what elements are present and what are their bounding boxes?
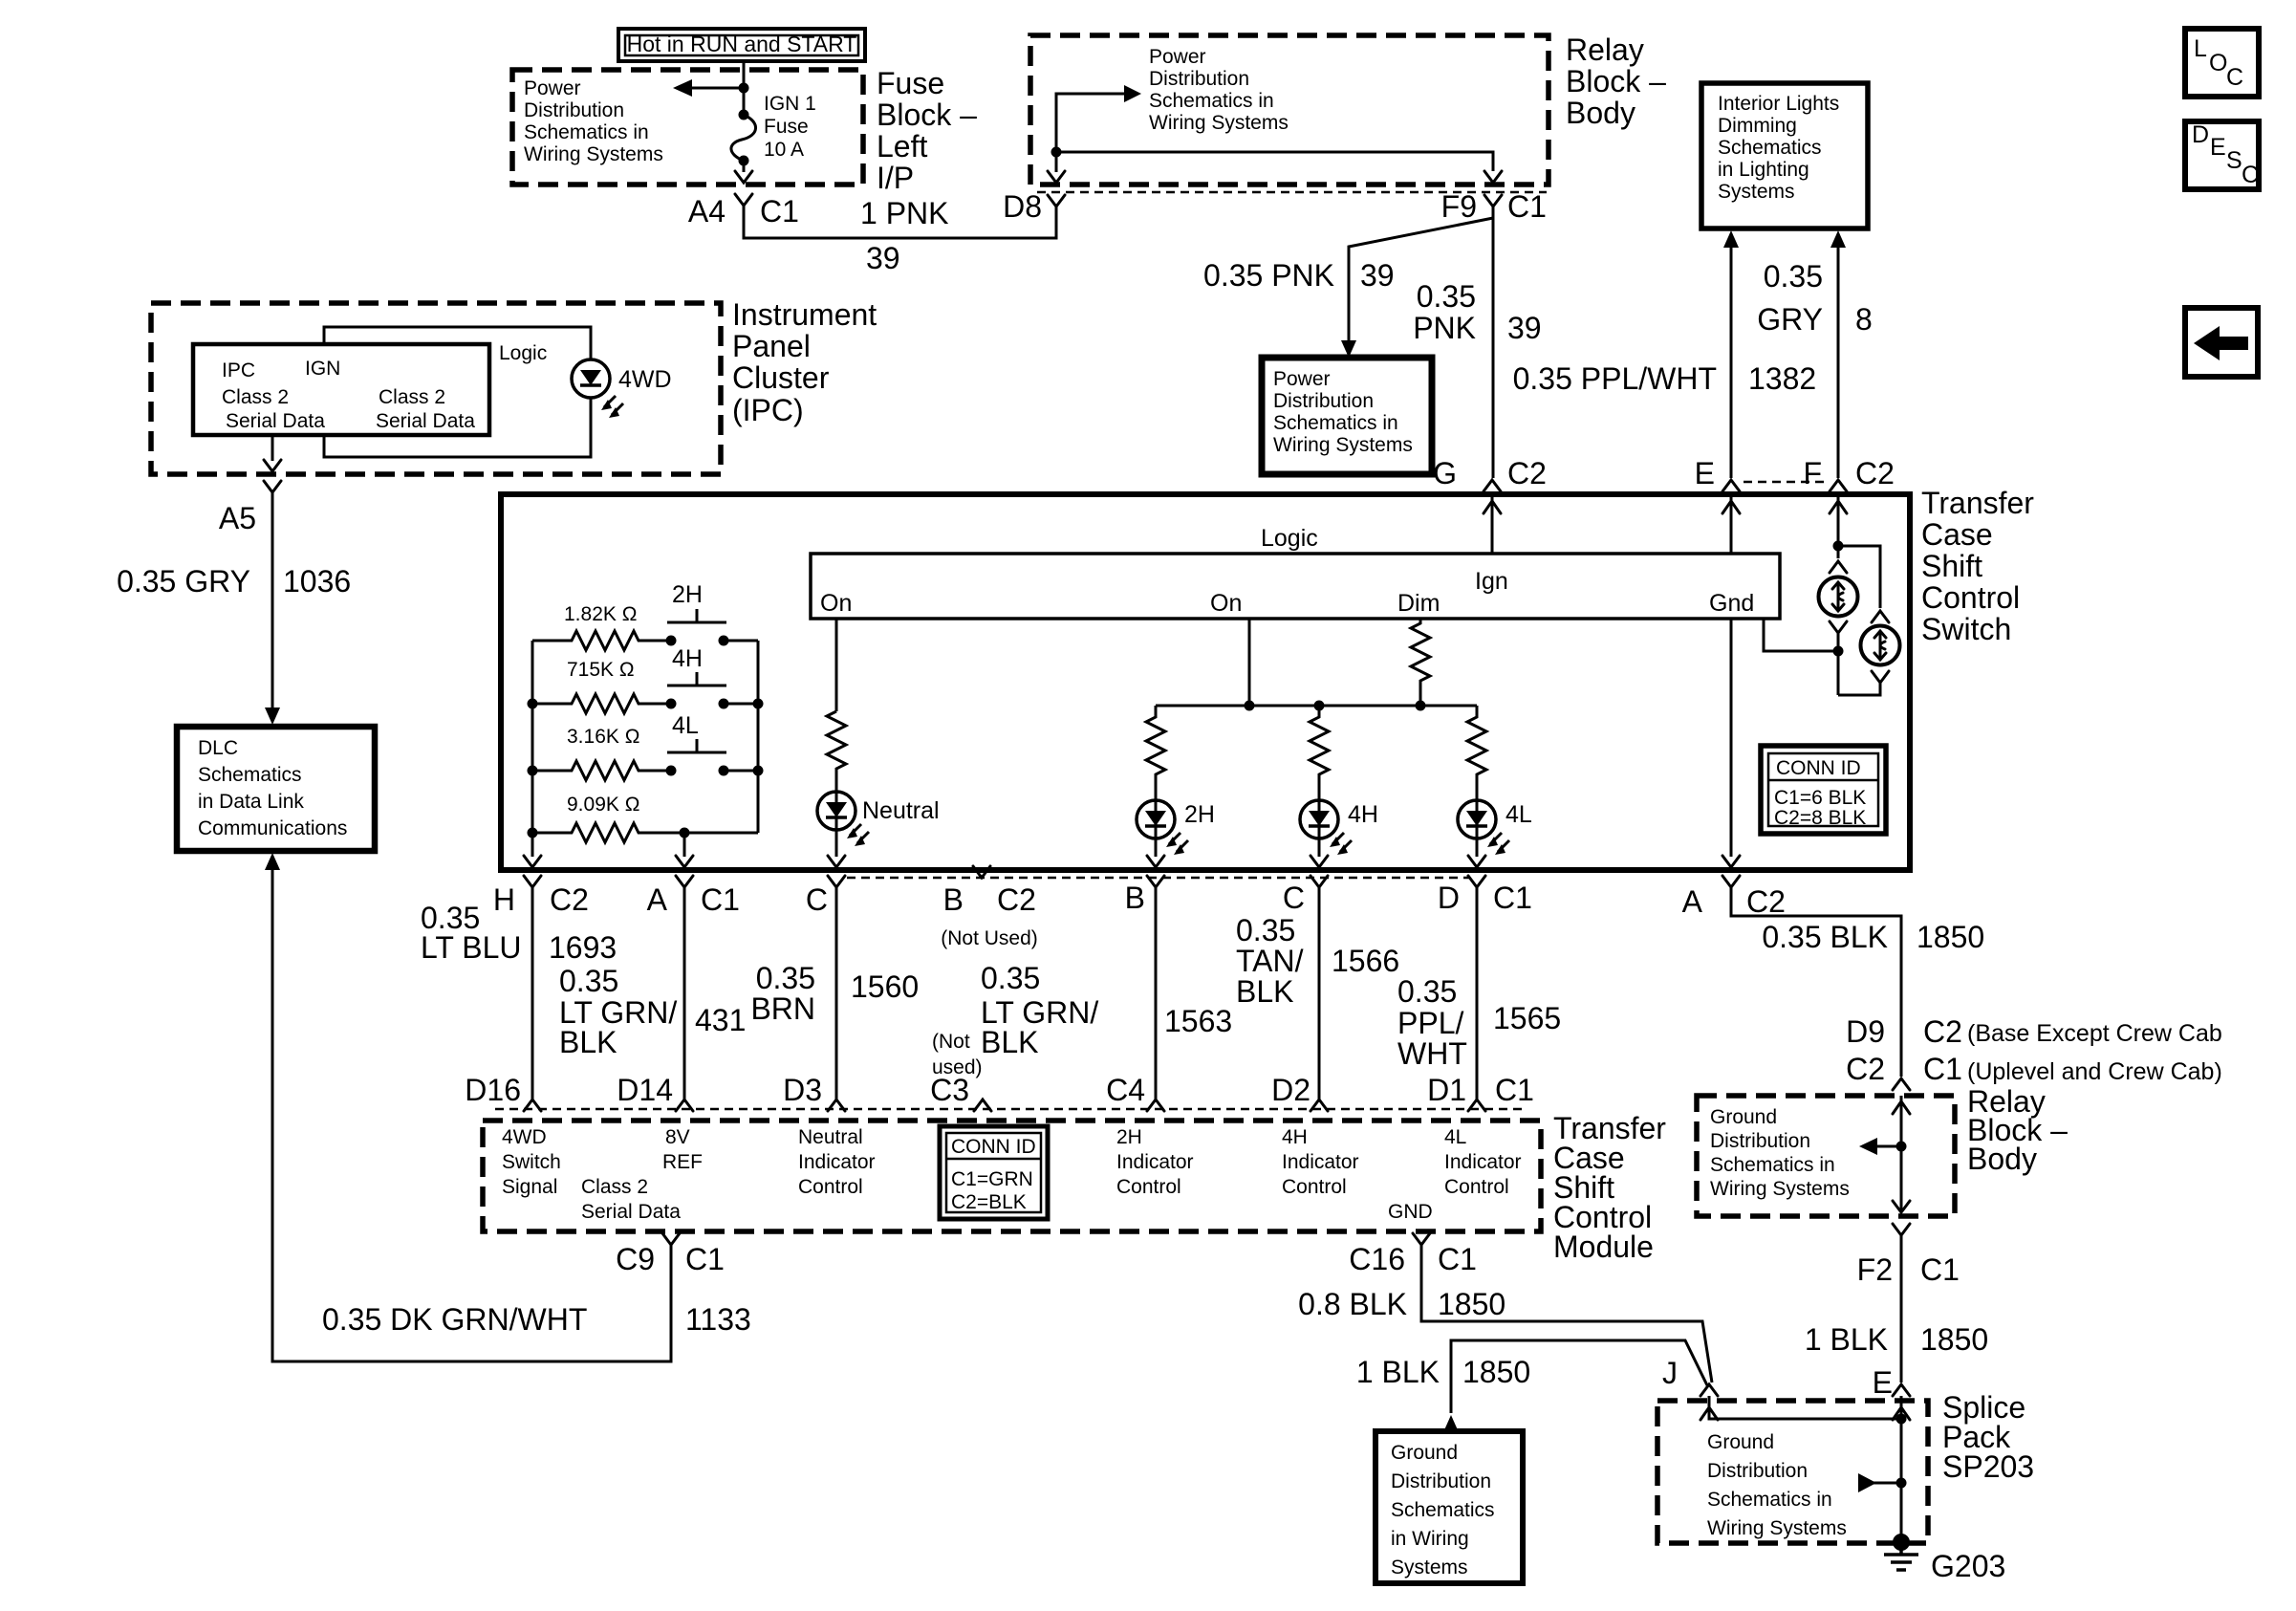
svg-text:Class 2: Class 2 [379,386,445,408]
connector below lamp 2 [1872,671,1889,683]
svg-text:Power: Power [1149,46,1206,68]
svg-text:Ground: Ground [1710,1106,1777,1128]
lamp 2 (dimming) [1861,626,1900,665]
wire ladder output down [683,833,686,857]
wire G entry with up arrow [1484,494,1501,554]
svg-text:D: D [2192,121,2209,148]
arrow exit H [524,856,541,867]
svg-text:IGN: IGN [305,358,340,380]
wire On1 down [835,619,838,711]
label Instrument Panel Cluster (IPC) [732,297,877,427]
svg-text:Dimming: Dimming [1718,115,1797,137]
wire E entry with up arrow [1722,494,1740,554]
svg-text:G203: G203 [1931,1549,2005,1583]
connector C16 C1 (module bottom GND) [1349,1233,1477,1276]
bus box Logic/Ign [811,554,1780,619]
arrow exit A [676,856,693,867]
note text Power Distribution (relay block) [1149,46,1289,134]
svg-text:DLC: DLC [198,737,238,759]
wire 0.35 BLK 1850 from A C2 [1731,887,1901,1077]
resistor 2H branch [1146,706,1165,800]
svg-text:1850: 1850 [1920,1322,1988,1357]
svg-text:1693: 1693 [549,930,617,965]
svg-text:0.35: 0.35 [1764,259,1823,294]
wire On2 down [1248,619,1251,706]
relay block body dashed box (ground distribution) [1697,1096,1955,1216]
svg-text:IGN 1: IGN 1 [764,93,816,115]
svg-text:C9: C9 [616,1242,655,1276]
svg-text:C: C [1283,881,1305,915]
label 4WD Switch Signal [502,1126,561,1198]
svg-text:715K Ω: 715K Ω [567,659,635,681]
svg-text:C1: C1 [1438,1242,1477,1276]
wire contact to right rail [724,770,758,773]
svg-text:SP203: SP203 [1942,1449,2034,1484]
svg-text:in Data Link: in Data Link [198,791,304,813]
svg-text:1560: 1560 [851,969,919,1004]
svg-text:F9: F9 [1441,189,1477,224]
label Class 2 Serial Data (module) [581,1176,681,1223]
svg-text:Ign: Ign [1475,568,1508,595]
switch contact 4L [666,712,729,776]
svg-text:0.35 DK GRN/WHT: 0.35 DK GRN/WHT [322,1302,587,1337]
note text Power Distribution (fuse block) [524,77,663,165]
connector below lamp 1 [1830,621,1847,633]
svg-text:A: A [647,882,668,917]
label IGN 1 Fuse 10 A [764,93,816,161]
svg-text:1 BLK: 1 BLK [1356,1355,1440,1389]
connector D9 C2 / C2 C1 [1846,1014,2222,1090]
fuse IGN 1 10A [731,110,756,166]
svg-text:0.35: 0.35 [1397,974,1457,1009]
svg-text:S: S [2226,147,2242,174]
svg-text:Relay: Relay [1566,33,1644,67]
svg-text:PPL/: PPL/ [1397,1006,1463,1040]
svg-text:C2=8 BLK: C2=8 BLK [1774,807,1866,829]
node junction in relay block [1896,1142,1907,1152]
svg-text:C1: C1 [1507,189,1547,224]
svg-text:C3: C3 [930,1073,969,1107]
left rail [531,641,534,857]
svg-text:Switch: Switch [502,1151,561,1173]
label Class 2 Serial Data (right) [376,386,475,432]
connector C (4H) [1283,876,1328,915]
svg-text:D2: D2 [1271,1073,1310,1107]
relay block dashed box [1030,35,1549,185]
node left rail row2 [528,699,538,709]
svg-text:C1: C1 [1923,1052,1962,1086]
svg-text:4WD: 4WD [502,1126,547,1148]
svg-text:Signal: Signal [502,1176,557,1198]
arrow exit B [1147,856,1164,867]
svg-text:C1: C1 [1920,1252,1960,1287]
svg-text:(Not Used): (Not Used) [941,927,1038,949]
wire 0.35 PNK 39 main from F9 to G [1492,207,1495,478]
label 4H Indicator Control [1282,1126,1359,1198]
svg-text:4WD: 4WD [618,366,672,393]
LED 4H [1300,800,1338,838]
wire 0.35 GRY 1036 [271,492,274,709]
connector C9 C1 (module bottom) [616,1233,725,1276]
ground G203 [1884,1534,1918,1570]
svg-text:8V: 8V [665,1126,690,1148]
module dashed box [483,1121,1541,1231]
svg-text:10 A: 10 A [764,139,804,161]
svg-text:Wiring Systems: Wiring Systems [1710,1178,1850,1200]
svg-text:C1: C1 [1493,881,1532,915]
svg-text:4H: 4H [672,645,703,672]
svg-text:C2=BLK: C2=BLK [951,1191,1027,1213]
svg-text:Wiring Systems: Wiring Systems [1707,1517,1847,1539]
svg-text:Power: Power [524,77,581,99]
svg-text:0.35: 0.35 [981,961,1040,995]
svg-text:Dim: Dim [1397,590,1440,617]
node left rail row3 [528,766,538,776]
svg-text:C2: C2 [1923,1014,1962,1049]
wire B to C4 [1155,887,1158,1099]
LED 4WD light arrows [601,396,623,418]
svg-text:C2: C2 [1507,456,1547,490]
svg-text:D16: D16 [465,1073,521,1107]
connector D2 [1271,1073,1328,1111]
LED Neutral [817,792,856,830]
svg-text:1850: 1850 [1438,1287,1505,1321]
connector D C1 [1438,876,1532,915]
wire E into splice pack with entry arrow [1893,1396,1910,1542]
wire from Hot box into fuse block [743,61,746,88]
svg-text:1565: 1565 [1493,1001,1561,1035]
svg-text:in Wiring: in Wiring [1391,1528,1469,1550]
svg-text:C1: C1 [760,194,799,229]
wire 0.35 PPL/WHT 1382 (E) [1730,246,1733,478]
svg-text:C4: C4 [1106,1073,1145,1107]
node lamp junction top [1833,541,1844,552]
label Transfer Case Shift Control Switch [1921,486,2034,646]
svg-text:On: On [1210,590,1242,617]
svg-text:Serial Data: Serial Data [226,410,325,432]
svg-text:Block –: Block – [877,98,977,132]
svg-text:O: O [2209,50,2227,76]
svg-text:C2: C2 [1746,884,1786,919]
svg-text:1133: 1133 [685,1302,751,1337]
svg-text:Schematics in: Schematics in [1710,1154,1835,1176]
resistor 4L branch [1467,706,1486,800]
svg-text:Ground: Ground [1707,1431,1774,1453]
svg-text:C1=6 BLK: C1=6 BLK [1774,787,1866,809]
svg-text:Control: Control [1921,580,2020,615]
wire Gnd to lamp loop [1764,619,1838,651]
label 0.35 LT BLU [421,901,522,965]
svg-text:Neutral: Neutral [798,1126,863,1148]
splice pack dashed box [1657,1401,1928,1543]
svg-text:A5: A5 [219,501,256,535]
resistor 4H branch [1310,706,1329,800]
svg-text:0.35 GRY: 0.35 GRY [117,564,250,599]
node On2 junction [1245,701,1255,711]
label Transfer Case Shift Control Module [1553,1111,1666,1264]
svg-text:IPC: IPC [222,359,255,381]
svg-text:C1: C1 [685,1242,725,1276]
svg-text:0.35: 0.35 [1236,913,1295,947]
wire indicator feed rail [1156,705,1477,708]
arrow exit D8 [1048,152,1065,183]
svg-text:in Lighting: in Lighting [1718,159,1809,181]
label Relay Block - Body (bottom) [1967,1084,2068,1176]
LED 2H [1137,800,1175,838]
svg-text:Cluster: Cluster [732,360,830,395]
wire [743,88,746,115]
wire LED 4L to exit D [1476,838,1479,857]
thin dashed connector line (module top) [495,1108,1527,1111]
label 0.35 PPL/ WHT [1397,974,1467,1071]
svg-text:Systems: Systems [1391,1557,1468,1578]
wire 1 BLK 1850 branch to ground distribution [1451,1340,1707,1413]
node ladder output [680,828,690,838]
label 0.35 PNK (vertical wire) [1413,279,1476,345]
svg-text:Power: Power [1273,368,1331,390]
svg-text:8: 8 [1855,302,1873,337]
label 0.35 LT GRN/ BLK (1563) [981,961,1098,1059]
svg-text:Transfer: Transfer [1921,486,2034,520]
svg-text:Logic: Logic [1261,525,1318,552]
svg-text:Schematics: Schematics [1391,1499,1495,1521]
arrow exit relay block [1893,1201,1910,1212]
svg-text:C1: C1 [701,882,740,917]
wire F entry with up arrow [1830,494,1847,544]
svg-text:2H: 2H [1184,801,1215,828]
wire fuse to A4 with exit arrow [735,161,752,183]
svg-text:Logic: Logic [499,342,547,364]
wire A5 exit from IPC [264,435,281,471]
switch box [501,494,1910,870]
arrow exit F9 [1484,171,1502,183]
DESC box [2185,121,2259,189]
connector D8 [1003,189,1065,224]
svg-text:Case: Case [1921,517,1993,552]
arrow into ground distribution box [1443,1415,1459,1432]
svg-text:D8: D8 [1003,189,1042,224]
svg-text:4H: 4H [1282,1126,1308,1148]
svg-text:Class 2: Class 2 [581,1176,648,1198]
label 0.35 LT GRN/ BLK (431) [559,964,677,1059]
svg-text:Schematics in: Schematics in [524,121,649,143]
connector A4 C1 [688,194,799,229]
connector F C2 (top) [1803,456,1894,491]
connector G C2 (top) [1433,456,1547,491]
wire LED 2H to exit B [1155,838,1158,857]
wire contact to right rail [724,640,758,642]
svg-text:C1=GRN: C1=GRN [951,1168,1033,1190]
svg-text:39: 39 [1360,258,1395,293]
LED 2H light arrows [1166,833,1188,855]
svg-text:Block –: Block – [1566,64,1666,98]
svg-text:Systems: Systems [1718,181,1795,203]
resistor 715K [532,694,671,713]
svg-text:C2: C2 [1846,1052,1885,1086]
svg-text:E: E [1695,456,1715,490]
svg-text:C: C [806,882,828,917]
svg-text:2H: 2H [1116,1126,1142,1148]
svg-text:2H: 2H [672,581,703,608]
svg-text:Distribution: Distribution [524,99,624,121]
connector C3 (not used) [930,1073,991,1111]
label box Hot in RUN and START [618,29,865,61]
svg-text:Left: Left [877,129,927,163]
arrow up into DLC box bottom [265,853,280,870]
connector E (splice) [1873,1365,1910,1400]
svg-text:Control: Control [798,1176,863,1198]
svg-text:G: G [1433,456,1457,490]
connector E (top) [1695,456,1740,491]
svg-text:Fuse: Fuse [764,116,809,138]
svg-text:1 BLK: 1 BLK [1805,1322,1888,1357]
svg-text:(Base Except Crew Cab: (Base Except Crew Cab [1967,1020,2222,1047]
connector B [1125,876,1164,915]
resistor 1.82K [532,631,671,650]
svg-text:Schematics in: Schematics in [1707,1489,1832,1511]
svg-text:C: C [2242,162,2259,188]
label Fuse Block Left I/P [877,66,977,195]
svg-text:D: D [1438,881,1460,915]
svg-text:CONN ID: CONN ID [951,1136,1036,1158]
arrow to ground distribution (left) [1859,1138,1901,1155]
svg-text:Serial Data: Serial Data [376,410,475,432]
info box Ground Distribution Schematics in Wiring Systems (solid) [1375,1431,1523,1583]
node lamp gnd junction [1833,646,1844,657]
svg-text:Interior Lights: Interior Lights [1718,93,1839,115]
svg-text:Panel: Panel [732,329,811,363]
node right rail row2 [753,699,764,709]
svg-text:A: A [1682,884,1703,919]
thin dashed connector line E to F [1744,481,1826,484]
svg-text:Indicator: Indicator [1444,1151,1522,1173]
svg-text:Fuse: Fuse [877,66,944,100]
switch contact 2H [666,581,729,646]
svg-text:BLK: BLK [1236,974,1293,1009]
svg-text:I/P: I/P [877,161,914,195]
connector F2 C1 [1857,1224,1960,1287]
svg-text:D1: D1 [1427,1073,1466,1107]
svg-text:Control: Control [1282,1176,1347,1198]
LED Neutral light arrows [847,824,869,846]
svg-text:Class 2: Class 2 [222,386,289,408]
thin dashed connector line (C2 row) [847,877,1470,880]
arrow to power distribution (right) [1124,85,1141,102]
note text Ground Distribution (splice pack) [1707,1431,1847,1539]
svg-text:39: 39 [1507,311,1542,345]
note text Ground Distribution (relay block) [1710,1106,1850,1200]
svg-text:On: On [820,590,852,617]
svg-text:H: H [493,882,515,917]
info box Interior Lights Dimming Schematics in Lighting Systems [1701,83,1868,229]
lamp 1 (dimming) [1819,577,1858,617]
svg-text:Body: Body [1566,96,1635,130]
svg-text:431: 431 [695,1003,746,1037]
svg-text:L: L [2194,35,2207,62]
node junction at fuse top [739,83,749,94]
arrow up into interior lights box (F wire) [1830,230,1846,248]
svg-text:BLK: BLK [981,1025,1038,1059]
svg-text:GRY: GRY [1757,302,1823,337]
wire contact to right rail [724,703,758,706]
node left rail row4 [528,828,538,838]
arrow exit C [828,856,845,867]
label 4L Indicator Control GND [1388,1126,1522,1223]
svg-text:GND: GND [1388,1201,1433,1223]
LED 4L light arrows [1487,833,1509,855]
svg-text:Switch: Switch [1921,612,2011,646]
resistor neutral branch [827,711,846,792]
svg-text:1563: 1563 [1164,1004,1232,1038]
IPC class2 box (front rect) [193,344,489,435]
svg-text:Schematics: Schematics [1718,137,1822,159]
wire 0.8 BLK 1850 from C16 to J [1421,1245,1712,1382]
svg-text:F: F [1803,456,1822,490]
svg-text:C: C [2226,64,2243,91]
svg-text:LT BLU: LT BLU [421,930,522,965]
wire LED 4H to exit C [1318,838,1321,857]
resistor 9.09K [532,823,758,842]
wire 0.35 PNK 39 diagonal branch from F9 [1349,218,1493,344]
svg-text:B: B [943,882,964,917]
node right rail row3 [753,766,764,776]
svg-text:3.16K Ω: 3.16K Ω [567,726,639,748]
arrow up into interior lights box (E wire) [1723,230,1739,248]
wire C to D3 [835,887,838,1099]
wire Gnd to exit A [1730,619,1733,857]
arrow exit C (D2) [1310,856,1328,867]
wire J into splice pack [1700,1396,1901,1420]
node 4H junction [1314,701,1325,711]
svg-text:D14: D14 [617,1073,673,1107]
wire LED to exit C [835,830,838,857]
info box DLC Schematics in Data Link Communications [177,727,375,851]
svg-text:C2: C2 [550,882,589,917]
svg-text:Hot in RUN and START: Hot in RUN and START [627,32,857,56]
svg-text:REF: REF [662,1151,703,1173]
svg-text:Communications: Communications [198,817,347,839]
svg-text:Wiring Systems: Wiring Systems [1273,434,1413,456]
connector B C2 (not used) [941,866,1038,949]
LED 4L [1458,800,1496,838]
wire C to D2 [1318,887,1321,1099]
connector D3 [783,1073,845,1111]
right rail [757,641,760,833]
wire D8 riser inside relay block [1056,94,1126,152]
svg-text:Ground: Ground [1391,1442,1458,1464]
label Neutral Indicator Control [798,1126,876,1198]
svg-text:1.82K Ω: 1.82K Ω [564,603,637,625]
connector A5 [219,481,281,535]
svg-text:0.35: 0.35 [1417,279,1476,314]
svg-text:0.35 PPL/WHT: 0.35 PPL/WHT [1513,361,1717,396]
svg-text:Body: Body [1967,1142,2037,1176]
svg-text:0.35 PNK: 0.35 PNK [1203,258,1334,293]
wire lamp2 bottom loop [1838,683,1880,695]
connector D1 C1 [1427,1073,1534,1111]
wire H to D16 [531,887,534,1099]
svg-text:J: J [1662,1356,1678,1390]
label 2H Indicator Control [1116,1126,1194,1198]
svg-text:1 PNK: 1 PNK [860,196,948,230]
svg-text:C2: C2 [1855,456,1895,490]
back arrow box [2185,308,2258,377]
svg-text:Gnd: Gnd [1709,590,1754,617]
svg-text:D9: D9 [1846,1014,1885,1049]
svg-text:1566: 1566 [1332,944,1399,978]
svg-text:C16: C16 [1349,1242,1405,1276]
wire feedback 1133 up to DLC [272,868,671,1361]
